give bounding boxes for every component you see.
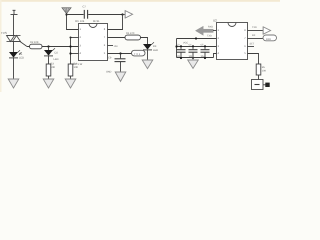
- wire left drop: [176, 39, 178, 58]
- svg-text:RXD: RXD: [266, 38, 271, 41]
- svg-text:B.P.5.W: B.P.5.W: [73, 63, 83, 66]
- wire (gate net): [27, 46, 78, 48]
- capacitor C4: [189, 46, 198, 58]
- ground: [142, 60, 153, 69]
- ground: [8, 79, 19, 88]
- wire pin4 stub: [71, 53, 79, 55]
- wire VCC net to pin2: [177, 38, 217, 40]
- svg-text:LED: LED: [153, 49, 158, 52]
- wire pin8: [248, 30, 264, 32]
- ground: [188, 58, 199, 69]
- ground: [115, 72, 126, 81]
- svg-text:U2: U2: [213, 19, 217, 23]
- svg-text:C7: C7: [83, 6, 87, 9]
- svg-text:RXD: RXD: [208, 26, 213, 29]
- node junction: [121, 13, 123, 15]
- wire pin2 down through gate net to R3: [70, 38, 72, 65]
- resistor R2: [46, 64, 51, 76]
- wire R4 to D3: [141, 38, 148, 45]
- resistor R1: [30, 44, 43, 49]
- wire: [88, 14, 122, 16]
- wire pin5 to R5: [248, 54, 259, 65]
- wire: [120, 62, 122, 72]
- svg-text:TXD: TXD: [207, 35, 212, 38]
- svg-text:R1 470: R1 470: [126, 32, 135, 35]
- node junction: [204, 57, 206, 59]
- wire: [70, 76, 72, 79]
- IC U1: [79, 24, 108, 61]
- wire: [213, 30, 217, 32]
- node junction (D2 branch): [47, 45, 49, 47]
- left border tint: [0, 0, 2, 92]
- svg-text:D2: D2: [55, 52, 59, 55]
- port arrow (right, top): [125, 11, 132, 18]
- wire: [48, 56, 50, 64]
- net label oval TX1: [132, 50, 146, 56]
- svg-text:RX: RX: [252, 34, 256, 37]
- wire pin7: [248, 38, 264, 40]
- wire rail up to pin4: [214, 54, 217, 58]
- wire pin5 net: [108, 53, 132, 55]
- U1 pin numbers: [80, 28, 106, 55]
- port arrow (right, TXD): [263, 27, 270, 34]
- capacitor C3: [177, 46, 186, 58]
- switch/logic box KEY1: [252, 80, 266, 90]
- svg-text:D3: D3: [153, 45, 157, 48]
- wire top rail: [67, 14, 84, 16]
- terminal ANT (top-left input stub): [11, 10, 18, 14]
- svg-text:104: 104: [80, 20, 85, 23]
- wire cap-bank bottom rail: [177, 57, 214, 59]
- U2 pin numbers: [218, 29, 247, 55]
- svg-text:10K: 10K: [262, 70, 267, 73]
- svg-text:LED: LED: [54, 58, 59, 61]
- wire pin8 to top rail: [108, 15, 123, 30]
- wire: [13, 42, 15, 53]
- wire to C2: [120, 54, 122, 59]
- wire: [13, 15, 15, 36]
- wire pin7 to R4: [108, 37, 126, 39]
- svg-text:LED: LED: [19, 57, 24, 60]
- node junction: [195, 37, 197, 39]
- LED D2: [44, 47, 55, 56]
- wire: [48, 76, 50, 79]
- svg-text:C9: C9: [108, 57, 112, 60]
- node junction: [69, 45, 71, 47]
- wire: [123, 14, 126, 16]
- svg-text:TXD: TXD: [252, 26, 257, 29]
- IC U2: [217, 23, 248, 60]
- svg-text:103: 103: [114, 45, 119, 48]
- svg-text:M741: M741: [93, 20, 100, 23]
- svg-text:10K: 10K: [51, 66, 56, 69]
- node junction: [192, 45, 194, 47]
- capacitor C1: [84, 10, 87, 19]
- power VCC symbol: [62, 8, 71, 14]
- triac Q1: [7, 36, 28, 47]
- ground: [65, 79, 76, 88]
- node junction: [192, 57, 194, 59]
- node junction: [70, 37, 72, 39]
- ground: [43, 79, 54, 88]
- wire: [258, 75, 260, 80]
- svg-text:GND: GND: [106, 71, 112, 74]
- net label oval RXD: [263, 35, 277, 41]
- node junction: [180, 57, 182, 59]
- svg-text:R2 10K: R2 10K: [30, 41, 39, 44]
- wire pin6 stub: [248, 46, 255, 48]
- node junction: [180, 45, 182, 47]
- node junction: [69, 52, 71, 54]
- node junction (VCC / top rail): [65, 13, 67, 15]
- LED D3: [143, 42, 154, 50]
- svg-text:SET: SET: [250, 43, 255, 46]
- LED D1: [9, 50, 22, 58]
- capacitor C2: [115, 59, 126, 62]
- capacitor C5: [201, 46, 210, 58]
- wire pin6 stub: [108, 45, 114, 47]
- wire VCC down to pin1: [67, 14, 79, 30]
- wire pin2 stub: [71, 37, 79, 39]
- node junction: [175, 45, 177, 47]
- node junction: [119, 52, 121, 54]
- node junction: [204, 45, 206, 47]
- wire cap-bank top rail: [177, 46, 217, 48]
- resistor R3: [68, 64, 73, 76]
- labels: tiny schematic text: [1, 6, 271, 74]
- resistor R5: [256, 64, 261, 75]
- svg-text:T X 1: T X 1: [134, 53, 141, 56]
- svg-text:TVS: TVS: [1, 31, 7, 35]
- resistor R4: [125, 35, 141, 40]
- port arrow (left, into U2 pin1): [196, 27, 213, 35]
- svg-text:U1: U1: [75, 19, 79, 23]
- wire: [147, 50, 149, 60]
- pin pad (filled square): [265, 83, 269, 87]
- svg-text:10K: 10K: [74, 66, 79, 69]
- wire: [13, 58, 15, 79]
- top border tint: [0, 0, 280, 2]
